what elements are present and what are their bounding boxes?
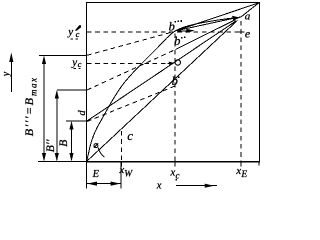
dashed pole line to b''' (87, 31, 175, 55)
dimension B'' vertical arrow (55, 90, 59, 162)
box right edge tick below axis (258, 162, 260, 166)
svg-text:E: E (92, 169, 100, 180)
svg-text:xc: xc (169, 167, 179, 181)
equilibrium curve (87, 17, 242, 162)
slash through mark (94, 143, 98, 148)
dimension B vertical arrow (69, 121, 73, 162)
svg-text:B′′: B′′ (45, 139, 57, 152)
y axis arrow (9, 53, 13, 93)
small slashed-circle mark near corner (94, 144, 98, 148)
svg-text:d: d (77, 110, 88, 116)
E dimension arrow (87, 182, 121, 186)
baseline extension left of box (38, 161, 86, 163)
svg-text:c: c (78, 59, 82, 69)
svg-text:b: b (172, 74, 178, 88)
svg-text:b: b (169, 20, 175, 34)
xW tick below axis (121, 162, 123, 167)
solid line a to top-right corner (241, 3, 258, 17)
dot of b' (178, 76, 180, 78)
angle arc at corner K (98, 148, 104, 158)
dots under yc'' (71, 38, 73, 39)
small arrow right of b''' (178, 29, 195, 33)
dashed vertical xE below a (240, 21, 242, 162)
dimension B''' cap line (39, 54, 87, 56)
arrowhead into a (232, 16, 240, 21)
svg-text:a: a (245, 11, 251, 23)
E dimension extension line right at xW (120, 162, 122, 189)
dashed pole line to b' (87, 86, 175, 122)
circle marker at tangent point on line d-a (175, 60, 180, 65)
solid line b'' to a (176, 20, 236, 50)
svg-text:c: c (76, 29, 80, 39)
label yc'' superscript wedge (75, 25, 81, 30)
svg-text:e: e (245, 26, 251, 40)
svg-text:y: y (1, 71, 12, 77)
dots under ye (74, 68, 76, 69)
dashed vertical xW (121, 131, 123, 162)
svg-text:b: b (174, 34, 180, 48)
xc tick below axis (174, 162, 176, 167)
dashed vertical pole column xc (174, 34, 176, 163)
dimension B''' vertical arrow (42, 56, 46, 162)
svg-text:y: y (67, 26, 73, 38)
x axis arrow (176, 184, 217, 188)
svg-text:y: y (71, 57, 77, 69)
dashed horizontal yc'' level (87, 31, 231, 33)
dot under xc subscript (176, 179, 178, 180)
solid tick at e on yc'' level (235, 31, 245, 33)
svg-text:B′′′=Bmax: B′′′=Bmax (22, 77, 38, 137)
dimension B'' cap line (57, 89, 87, 91)
solid line b''' to top-right corner (177, 3, 259, 31)
svg-text:x: x (156, 181, 162, 192)
plot box frame (86, 3, 259, 162)
svg-text:B: B (58, 140, 70, 147)
dots of b'' (181, 37, 186, 39)
dashed horizontal ye level (87, 62, 167, 64)
solid end of ye line with arrowhead into circle (168, 62, 173, 64)
svg-text:xE: xE (235, 165, 247, 180)
svg-text:c: c (127, 128, 133, 143)
solid line corner K through b' to a (86, 20, 238, 162)
solid line b''' to a (175, 18, 233, 31)
E dimension extension line left (86, 162, 88, 189)
solid line d through circle point to a (87, 21, 236, 121)
dashed pole line to b'' (87, 50, 176, 91)
dimension B cap line (66, 120, 87, 122)
dots of b''' (174, 20, 182, 22)
xE tick below axis (240, 162, 242, 167)
